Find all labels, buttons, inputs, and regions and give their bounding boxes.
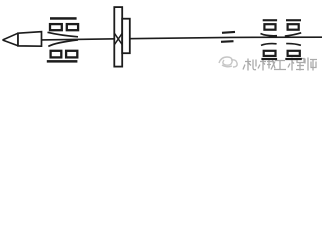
pulley P3 top groove square	[288, 24, 299, 30]
pulley P2 lower hub line	[261, 44, 277, 46]
pulley P3 bottom rim bar	[285, 58, 302, 60]
pulley P2 bottom groove square	[264, 51, 276, 56]
belt upper edge	[48, 32, 79, 37]
fixed-joint X mark on shaft	[115, 33, 123, 44]
char 师	[305, 58, 317, 71]
pulley P1 bottom rim bar	[47, 60, 78, 63]
pulley P2 top groove square	[264, 24, 275, 30]
pulley P3 top rim bar	[286, 19, 301, 21]
shaft (main axis)	[42, 37, 322, 40]
char 械	[258, 59, 275, 71]
pulley P2 bottom rim bar	[261, 58, 277, 60]
watermark logo mark	[219, 57, 237, 67]
pulley P1 bottom groove square B	[66, 51, 77, 58]
pulley P3 bottom groove square	[288, 51, 300, 56]
pulley P1 top groove square A	[50, 24, 62, 30]
watermark text 机械工程师 (approximated strokes)	[243, 58, 317, 71]
pulley P1 bottom groove square A	[51, 51, 62, 58]
motor M (cone nose)	[3, 33, 19, 46]
gearbox housing (tall section)	[114, 7, 122, 67]
pulley P2 top rim bar	[263, 19, 277, 21]
pulley P1 top groove square B	[67, 24, 78, 30]
gearbox housing (side section)	[122, 19, 130, 54]
pulley P3 lower hub line	[286, 44, 301, 46]
char 机	[243, 59, 256, 71]
motor M (body)	[18, 32, 42, 47]
pulley P2 upper hub line	[261, 34, 278, 36]
pulley P3 upper hub line	[285, 33, 301, 36]
char 程	[288, 58, 304, 71]
char 工	[274, 61, 286, 70]
belt lower edge	[48, 40, 78, 47]
bearing lower bar	[221, 40, 234, 43]
bearing upper bar	[222, 31, 235, 34]
pulley P1 top rim bar	[50, 17, 77, 20]
